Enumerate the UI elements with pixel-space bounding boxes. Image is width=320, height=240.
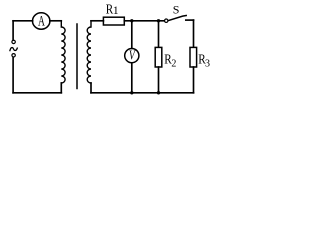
switch S contact circle: [165, 19, 168, 22]
wire left side lower: [12, 57, 14, 93]
AC source terminal top: [12, 40, 15, 43]
svg-text:2: 2: [171, 58, 176, 69]
switch S blade: [168, 16, 186, 21]
wire R2 branch lower: [158, 67, 160, 93]
wire secondary coil bottom lead: [90, 83, 92, 93]
svg-text:A: A: [38, 12, 45, 28]
wire ammeter to primary coil: [50, 20, 62, 22]
wire switch to top-right corner: [186, 19, 194, 21]
wire secondary bottom: [91, 92, 194, 94]
transformer primary coil: [61, 21, 65, 83]
wire right side upper: [193, 20, 195, 47]
wire secondary top to R1: [91, 20, 103, 22]
wire right side lower: [193, 67, 195, 93]
wire left side upper: [12, 21, 14, 40]
transformer core: [76, 24, 78, 89]
AC source tilde: [10, 48, 17, 51]
ammeter A circle: [33, 13, 50, 29]
wire R2 branch upper: [158, 21, 160, 47]
wire V branch upper: [131, 21, 133, 49]
svg-text:3: 3: [205, 59, 210, 70]
wire left-loop bottom: [13, 92, 61, 94]
voltmeter V circle: [125, 49, 139, 63]
node V-branch bottom dot: [130, 91, 133, 94]
resistor R2 box: [155, 47, 162, 67]
svg-text:1: 1: [113, 5, 119, 17]
resistor R1 box: [103, 17, 124, 25]
node R2-branch bottom dot: [157, 91, 160, 94]
node V-branch top dot: [130, 19, 133, 22]
resistor R3 box: [190, 47, 197, 67]
AC source terminal bottom: [12, 54, 15, 57]
transformer secondary coil: [87, 21, 91, 83]
svg-text:S: S: [173, 3, 180, 17]
wire left-loop top: [13, 20, 32, 22]
wire V branch lower: [131, 63, 133, 93]
node R2-branch top dot: [157, 19, 160, 22]
wire R1 to switch: [124, 20, 164, 22]
wire primary coil bottom lead: [60, 83, 62, 93]
